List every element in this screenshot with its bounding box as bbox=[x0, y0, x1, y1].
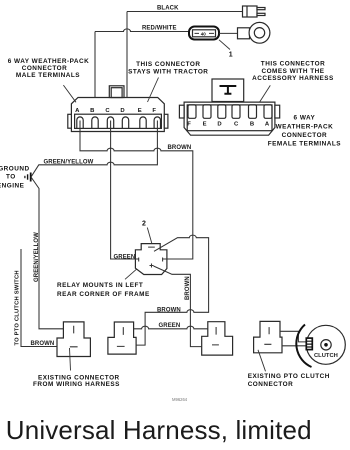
svg-text:BROWN: BROWN bbox=[185, 276, 191, 300]
leader to connector P4 bbox=[258, 350, 266, 372]
connector P3 ticks bbox=[212, 327, 219, 345]
svg-text:F: F bbox=[187, 122, 191, 128]
svg-text:FEMALE TERMINALS: FEMALE TERMINALS bbox=[268, 140, 342, 147]
wire GREEN/YELLOW from ground down to connector P1 bbox=[31, 177, 63, 329]
connector P1 body bbox=[57, 322, 90, 357]
connector P1 ticks bbox=[70, 326, 78, 347]
wire GREEN from J1 pin C to relay left pin (hops over two horizontals) bbox=[111, 121, 139, 260]
label EXISTING CONNECTOR FROM WIRING HARNESS bbox=[33, 374, 120, 388]
label 6 WAY WEATHER-PACK CONNECTOR FEMALE TERMINALS bbox=[268, 115, 342, 148]
svg-text:MALE TERMINALS: MALE TERMINALS bbox=[16, 72, 80, 79]
wire BROWN from relay tab to connector P2 (hop over green wire) bbox=[136, 235, 209, 345]
fuse 1 (40A) bbox=[189, 27, 219, 40]
svg-text:COMES WITH THE: COMES WITH THE bbox=[261, 68, 324, 75]
svg-text:F: F bbox=[152, 108, 156, 114]
svg-text:GREEN/YELLOW: GREEN/YELLOW bbox=[34, 232, 40, 282]
svg-text:TO PTO CLUTCH SWITCH: TO PTO CLUTCH SWITCH bbox=[14, 270, 20, 345]
svg-text:RED/WHITE: RED/WHITE bbox=[142, 25, 177, 31]
svg-text:A: A bbox=[75, 108, 80, 114]
svg-text:GREEN: GREEN bbox=[114, 254, 136, 260]
wire GREEN between connector P2 and connector P3 (hop over relay pin wire) bbox=[134, 326, 208, 329]
svg-text:ENGINE: ENGINE bbox=[0, 182, 25, 189]
label THIS CONNECTOR COMES WITH THE ACCESSORY HARNESS bbox=[252, 60, 334, 82]
leader to connector P1 bbox=[70, 348, 71, 371]
svg-text:STAYS WITH TRACTOR: STAYS WITH TRACTOR bbox=[128, 68, 208, 75]
svg-text:M96264: M96264 bbox=[172, 397, 188, 402]
svg-text:GROUND: GROUND bbox=[0, 166, 30, 173]
svg-text:BLACK: BLACK bbox=[157, 6, 179, 12]
ring terminal bbox=[238, 22, 270, 43]
wire fuse to ring terminal bbox=[219, 32, 238, 34]
svg-text:A: A bbox=[265, 122, 270, 128]
wire BLACK vertical into J1 (hop over RED/WHITE) bbox=[126, 12, 128, 98]
svg-text:Universal Harness, limited: Universal Harness, limited bbox=[6, 415, 312, 445]
svg-text:6 WAY WEATHER-PACK: 6 WAY WEATHER-PACK bbox=[8, 58, 90, 65]
svg-text:C: C bbox=[105, 108, 110, 114]
connector J1 male body bbox=[68, 86, 168, 132]
leader to relay corner bbox=[125, 269, 136, 279]
clutch bbox=[296, 325, 345, 368]
connector P2 ticks bbox=[117, 327, 125, 346]
wire RED/WHITE horizontal to fuse bbox=[95, 29, 189, 32]
wire BLACK horizontal to spade terminal bbox=[127, 11, 243, 13]
leader to connector J2 body bbox=[260, 85, 271, 101]
svg-text:ACCESSORY HARNESS: ACCESSORY HARNESS bbox=[252, 75, 334, 82]
connector P4 ticks bbox=[264, 327, 271, 344]
svg-text:D: D bbox=[120, 108, 125, 114]
svg-text:B: B bbox=[90, 108, 95, 114]
connector J2 pin letters bbox=[187, 122, 270, 128]
svg-text:EXISTING PTO CLUTCH: EXISTING PTO CLUTCH bbox=[248, 373, 330, 380]
connector J2 female body bbox=[179, 79, 279, 135]
connector P3 body bbox=[202, 322, 233, 355]
svg-text:CONNECTOR: CONNECTOR bbox=[248, 381, 294, 388]
svg-text:WEATHER-PACK: WEATHER-PACK bbox=[276, 123, 334, 130]
svg-text:40: 40 bbox=[201, 32, 207, 37]
leader to connector J1 bbox=[63, 85, 76, 102]
svg-text:E: E bbox=[203, 122, 207, 128]
ground symbol bbox=[25, 173, 31, 182]
svg-text:FROM WIRING HARNESS: FROM WIRING HARNESS bbox=[33, 381, 120, 388]
wire connector P4 to clutch upper bbox=[280, 331, 307, 342]
callout 2 leader to relay bbox=[147, 228, 152, 244]
svg-text:BROWN: BROWN bbox=[157, 308, 181, 314]
svg-text:C: C bbox=[234, 122, 239, 128]
svg-text:GREEN: GREEN bbox=[159, 323, 181, 329]
label THIS CONNECTOR STAYS WITH TRACTOR bbox=[128, 61, 208, 75]
relay pin ticks bbox=[139, 247, 163, 267]
svg-text:CONNECTOR: CONNECTOR bbox=[282, 132, 328, 139]
svg-text:BROWN: BROWN bbox=[168, 145, 192, 151]
connector J2 slots bbox=[188, 105, 272, 118]
svg-text:THIS CONNECTOR: THIS CONNECTOR bbox=[261, 60, 325, 67]
svg-text:RELAY MOUNTS IN LEFT: RELAY MOUNTS IN LEFT bbox=[57, 282, 143, 289]
leader to connector J1 body bbox=[148, 78, 159, 103]
callout 1 leader to fuse bbox=[219, 40, 230, 50]
svg-text:6 WAY: 6 WAY bbox=[293, 115, 315, 122]
svg-text:2: 2 bbox=[142, 221, 146, 228]
svg-text:CONNECTOR: CONNECTOR bbox=[22, 65, 68, 72]
wire connector P4 to clutch lower bbox=[282, 345, 307, 347]
connector J1 pin letters bbox=[75, 108, 156, 114]
svg-text:REAR CORNER OF FRAME: REAR CORNER OF FRAME bbox=[57, 291, 150, 298]
label GROUND TO ENGINE bbox=[0, 166, 30, 190]
svg-text:TO: TO bbox=[6, 173, 16, 180]
svg-text:B: B bbox=[250, 122, 255, 128]
label 6 WAY WEATHER-PACK CONNECTOR MALE TERMINALS bbox=[8, 58, 90, 79]
svg-text:THIS CONNECTOR: THIS CONNECTOR bbox=[136, 61, 200, 68]
connector P2 body bbox=[108, 322, 136, 354]
connector P4 body bbox=[254, 321, 282, 352]
wire BROWN from J1 pin A to relay right pin (hops over pin F wire and relay coil wire) bbox=[80, 121, 193, 260]
wire TO PTO CLUTCH SWITCH / BROWN into connector P1 bbox=[21, 249, 57, 347]
relay body bbox=[135, 244, 167, 275]
wire BROWN from relay centre pin to connector P3 bbox=[154, 266, 202, 347]
connector J2 latch T bbox=[220, 85, 237, 94]
svg-text:BROWN: BROWN bbox=[31, 341, 55, 347]
svg-text:CLUTCH: CLUTCH bbox=[314, 353, 338, 359]
label EXISTING PTO CLUTCH CONNECTOR bbox=[248, 373, 330, 388]
connector J1 pins bbox=[77, 117, 161, 128]
label RELAY MOUNTS IN LEFT REAR CORNER OF FRAME bbox=[57, 282, 150, 298]
svg-text:D: D bbox=[217, 122, 222, 128]
svg-text:1: 1 bbox=[229, 52, 233, 59]
wire GREEN/YELLOW from ground to J1 pin F bbox=[31, 121, 157, 178]
wire RED/WHITE vertical into J1 bbox=[94, 32, 96, 98]
spade quick-connect terminal bbox=[243, 6, 266, 17]
svg-text:E: E bbox=[138, 108, 142, 114]
